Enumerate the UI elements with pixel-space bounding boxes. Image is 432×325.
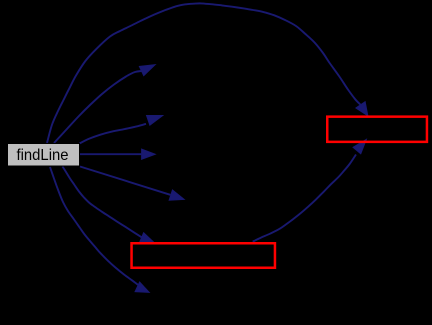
edge findLine to node5 (bottom curve) <box>50 167 150 293</box>
edge findLine to box2 (curve) <box>63 167 155 243</box>
edge findLine to node3 (fan horizontal) <box>80 149 156 160</box>
edge box2 to box1 (curve) <box>253 139 367 242</box>
edge findLine to node1 (fan top) <box>54 65 156 144</box>
svg-text:findLine: findLine <box>17 147 69 164</box>
edge findLine to node2 (fan upper) <box>80 115 164 143</box>
edge findLine to box1 (top arc) <box>47 3 368 143</box>
node box2 (red-bordered node, bottom) <box>132 243 275 268</box>
node box1 (red-bordered node, right) <box>327 117 427 142</box>
node findLine (root node, grey fill) <box>8 144 80 167</box>
edge findLine to node4 (fan lower) <box>80 167 185 201</box>
